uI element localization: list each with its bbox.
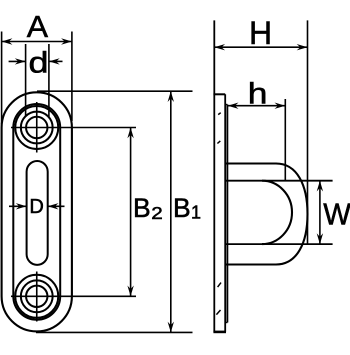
top hole horizontal centerline (extends right as B2 extension) <box>11 127 136 129</box>
embossed boss outline (inner stadium) <box>13 104 60 320</box>
plate tick mark 1 <box>218 113 221 115</box>
svg-text:1: 1 <box>191 203 201 223</box>
svg-text:2: 2 <box>151 204 162 223</box>
dimension H arrowhead left <box>214 44 225 50</box>
dimension d left arrow (pointing right) <box>9 60 26 62</box>
eye loop inner arc <box>262 181 292 244</box>
dimension D right arrow (pointing left at slot) <box>48 205 65 207</box>
dimension H right extension line <box>307 20 309 243</box>
svg-text:d: d <box>29 46 49 79</box>
dimension d extension line right <box>48 44 50 117</box>
center slot (oblong hole) <box>27 161 48 265</box>
dimension B2 arrowhead top <box>127 128 133 139</box>
top hole middle circle <box>21 112 53 144</box>
dimension B2 arrowhead bottom <box>127 286 133 297</box>
dimension W arrowhead bottom <box>317 233 323 244</box>
dimension B1 bottom extension line <box>36 331 193 333</box>
eye loop outer contour <box>225 164 307 265</box>
eye loop inner top line merged with W top extension <box>225 180 332 182</box>
dimension A extension line left <box>1 32 3 125</box>
dimension B2 line <box>130 128 132 297</box>
svg-text:A: A <box>27 9 48 43</box>
svg-text:B: B <box>133 193 151 223</box>
dimension A arrowhead right <box>61 38 72 44</box>
svg-text:D: D <box>29 196 43 218</box>
boss overlay front line <box>226 105 228 323</box>
dimension B1 line <box>170 91 172 332</box>
dimension B1 arrowhead top <box>168 91 174 102</box>
top hole vertical centerline <box>36 102 38 153</box>
plate front face line <box>224 94 226 332</box>
dimension d right arrow (pointing left) <box>49 60 63 62</box>
dimension B1 top extension line <box>37 90 193 92</box>
plate tick mark 4 <box>216 310 220 315</box>
dimension h arrowhead left <box>228 103 239 109</box>
bottom hole bore circle <box>26 286 47 307</box>
bottom hole vertical centerline <box>36 272 38 322</box>
svg-text:h: h <box>248 76 268 110</box>
dimension h arrowhead right <box>275 103 286 109</box>
boss overlay top step <box>225 104 227 106</box>
dimension W line <box>319 181 321 244</box>
dimension A extension line right <box>71 32 73 122</box>
dimension A line <box>2 41 72 43</box>
dimension D left arrow (pointing right at slot) <box>9 205 27 207</box>
boss overlay bottom step <box>225 322 227 324</box>
plate tick mark 2 <box>217 141 220 144</box>
top hole bore circle <box>26 117 47 138</box>
top hole countersink circle <box>15 106 58 149</box>
dimension d extension line left <box>25 44 27 117</box>
dimension H arrowhead right <box>297 44 308 50</box>
bottom hole middle circle <box>21 280 53 312</box>
dimension B1 arrowhead bottom <box>168 322 174 333</box>
dimension A arrowhead left <box>2 38 13 44</box>
plate tick mark 3 <box>218 283 221 288</box>
plate top edge <box>213 93 225 95</box>
plate outer outline (stadium) <box>2 92 72 331</box>
dimension W arrowhead top <box>317 181 323 192</box>
plate back face line merged with H left extension <box>213 20 215 332</box>
eye loop inner bottom line merged with W bottom extension <box>225 243 332 245</box>
plate bottom edge <box>213 331 226 334</box>
bottom hole countersink circle <box>15 275 58 318</box>
dimension h line <box>228 105 286 107</box>
svg-text:W: W <box>323 198 350 232</box>
dimension h extension line <box>284 99 286 181</box>
svg-text:H: H <box>249 15 272 51</box>
dimension H line <box>214 46 307 48</box>
svg-text:B: B <box>173 193 191 223</box>
bottom hole horizontal centerline (extends right as B2 extension) <box>11 295 136 297</box>
